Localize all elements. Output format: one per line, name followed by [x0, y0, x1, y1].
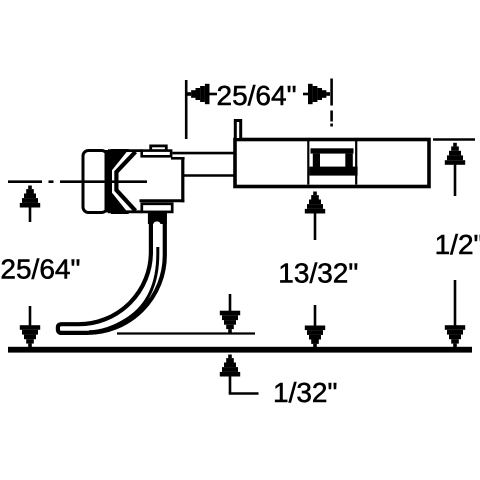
- svg-text:1/2": 1/2": [435, 229, 480, 260]
- svg-text:1/32": 1/32": [273, 377, 337, 408]
- svg-text:13/32": 13/32": [278, 257, 358, 288]
- svg-text:25/64": 25/64": [0, 254, 80, 285]
- svg-text:25/64": 25/64": [217, 80, 297, 111]
